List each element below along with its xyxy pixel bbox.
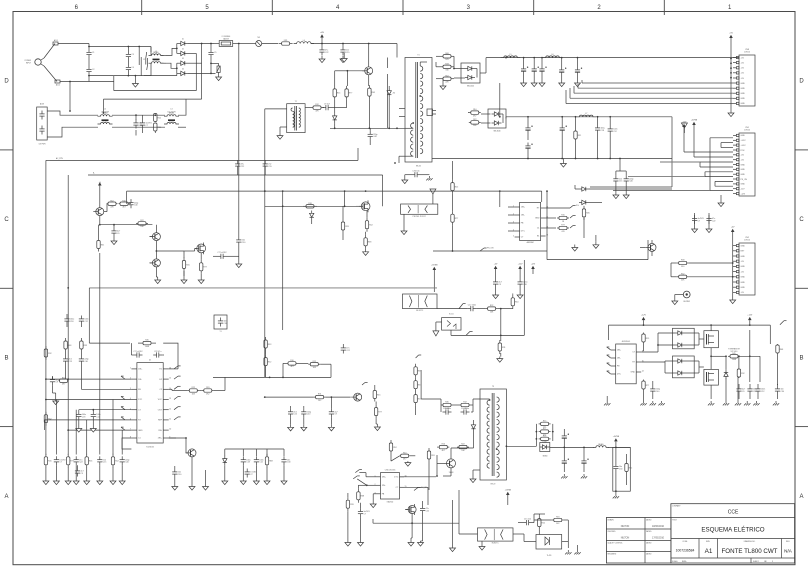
- svg-text:LF 23mH: LF 23mH: [101, 112, 109, 114]
- resistor R73: [390, 440, 392, 443]
- svg-text:GND: GND: [741, 103, 746, 105]
- wire rail x68: [67, 211, 69, 455]
- resistor R27: [200, 260, 202, 263]
- resistor R17: [583, 206, 585, 209]
- svg-text:ACL2: ACL2: [56, 84, 60, 87]
- connector CN2: [739, 243, 755, 295]
- svg-text:R22: R22: [158, 117, 161, 119]
- wire u8 bottom: [450, 330, 452, 335]
- terminal ACL2: [55, 80, 60, 83]
- svg-text:C18: C18: [82, 416, 85, 418]
- capacitor C25: [130, 199, 132, 202]
- power flag A1: [495, 269, 497, 274]
- diode D13: [223, 459, 227, 463]
- svg-text:PS_ON: PS_ON: [487, 248, 494, 250]
- ground G37: [404, 178, 406, 180]
- ground G17: [78, 426, 80, 429]
- capacitor C53: [652, 386, 654, 389]
- svg-text:GND: GND: [741, 83, 746, 85]
- svg-text:BEAD: BEAD: [598, 443, 604, 446]
- resistor R62: [677, 262, 679, 264]
- svg-text:R33: R33: [268, 344, 271, 346]
- resistor R6: [368, 85, 370, 88]
- resistor R16: [557, 227, 559, 229]
- svg-text:PS2561 PC817: PS2561 PC817: [413, 216, 426, 218]
- column tick marks: [141, 0, 143, 15]
- diode D14: [471, 425, 475, 429]
- ground hatch GH13: [652, 401, 654, 403]
- capacitor C15: [541, 66, 543, 69]
- svg-text:INPUT: INPUT: [26, 62, 31, 64]
- standby transformer T3: [480, 389, 506, 480]
- svg-text:C12 100n: C12 100n: [461, 408, 469, 410]
- flag F U3a: [570, 206, 573, 209]
- wire diode col: [575, 188, 579, 190]
- capacitor C38: [242, 456, 244, 459]
- ground G35: [615, 193, 617, 195]
- svg-text:R12: R12: [629, 467, 632, 469]
- svg-text:1007236584: 1007236584: [676, 549, 695, 553]
- svg-text:R77: R77: [646, 385, 649, 387]
- ground G26: [283, 478, 285, 481]
- ground G5: [442, 83, 444, 86]
- wire U1 bottom loop: [122, 438, 131, 449]
- line filter box LF1: [37, 107, 48, 140]
- snubber R10: [440, 66, 443, 68]
- svg-text:C22: C22: [712, 220, 715, 222]
- svg-text:R31: R31: [431, 455, 434, 457]
- power flag +5V CN8: [730, 38, 732, 44]
- ground hatch GH5: [577, 550, 579, 552]
- resistor R14: [575, 126, 577, 131]
- svg-text:+12V: +12V: [747, 315, 752, 317]
- svg-text:L4: L4: [303, 40, 305, 42]
- diode D3: [181, 61, 185, 65]
- svg-text:+12V: +12V: [741, 193, 746, 195]
- common mode choke L3: [164, 115, 179, 117]
- capacitor C27: [66, 316, 68, 319]
- optocoupler U4: [401, 204, 438, 214]
- svg-text:R33: R33: [681, 260, 684, 262]
- capacitor C59: [694, 215, 696, 218]
- ground hatch GH8: [737, 401, 739, 403]
- resistor R47: [415, 378, 417, 381]
- ground G43: [372, 501, 374, 504]
- wire fan out: [711, 355, 726, 357]
- resistor R29: [45, 346, 47, 349]
- resistor R5: [346, 86, 348, 89]
- svg-text:C12: C12: [259, 462, 262, 464]
- open arrow gnd2: [430, 189, 436, 194]
- svg-text:C3: C3: [131, 54, 133, 56]
- svg-text:C15: C15: [619, 181, 622, 183]
- capacitor C11: [369, 131, 371, 134]
- svg-text:C22: C22: [241, 166, 244, 168]
- wire q9 nets: [437, 462, 444, 464]
- svg-text:ACL1: ACL1: [54, 39, 58, 42]
- svg-text:R68: R68: [269, 461, 272, 463]
- svg-text:1IN-: 1IN-: [382, 485, 386, 487]
- flag 5VSB fb: [414, 488, 418, 491]
- svg-text:C40: C40: [134, 205, 137, 207]
- ground hatch GH1: [563, 474, 565, 476]
- svg-text:R52: R52: [445, 75, 448, 77]
- wire c24: [213, 255, 218, 257]
- svg-text:R31: R31: [101, 244, 104, 246]
- diode D4: [181, 71, 185, 75]
- resistor R64: [512, 295, 514, 298]
- svg-text:TITLE:: TITLE:: [672, 519, 678, 521]
- svg-text:GND: GND: [741, 256, 746, 258]
- thermistor R61: [728, 355, 730, 357]
- svg-text:C9 4u7: C9 4u7: [324, 103, 330, 105]
- ground G14: [183, 277, 185, 280]
- svg-text:5: 5: [513, 236, 514, 238]
- wire T3 left pins: [473, 398, 490, 400]
- TL431 U7: [536, 535, 562, 550]
- ground G25: [266, 478, 268, 481]
- svg-text:C7: C7: [146, 125, 148, 127]
- svg-text:GND: GND: [741, 88, 746, 90]
- resistor R75: [154, 122, 156, 125]
- resistor R43: [375, 405, 377, 408]
- svg-text:ESQUEMA ELÉTRICO: ESQUEMA ELÉTRICO: [701, 527, 764, 534]
- svg-text:R31: R31: [502, 347, 505, 349]
- capacitor C57: [757, 386, 759, 389]
- capacitor C67: [412, 174, 415, 176]
- capacitor C19: [527, 143, 529, 146]
- svg-text:A: A: [4, 494, 8, 500]
- svg-text:R22: R22: [313, 361, 316, 363]
- svg-text:A1: A1: [705, 548, 713, 555]
- transistor Q5: [152, 259, 160, 267]
- svg-text:SHEET:: SHEET:: [753, 561, 759, 563]
- dual diode D8: [461, 63, 480, 83]
- svg-text:C945 2SC945: C945 2SC945: [385, 469, 396, 471]
- ground hatch GH3: [615, 494, 617, 496]
- wire 5vsb rail: [550, 446, 594, 448]
- svg-text:R52: R52: [268, 361, 271, 363]
- wire EMI bot: [47, 127, 98, 137]
- capacitor C46: [443, 411, 446, 413]
- svg-text:DTC: DTC: [138, 399, 143, 401]
- resistor R22: [107, 203, 109, 205]
- wire HV rail: [311, 43, 397, 45]
- ground hatch GH10: [755, 401, 757, 403]
- svg-text:R31: R31: [578, 135, 581, 137]
- ground G19: [174, 484, 176, 487]
- svg-text:NILTON: NILTON: [621, 525, 630, 528]
- thermistor TH1: [256, 41, 262, 47]
- svg-text:R31: R31: [206, 387, 209, 389]
- svg-text:100K: 100K: [732, 359, 737, 361]
- svg-text:LF 23mH: LF 23mH: [168, 112, 176, 114]
- box U8: [442, 318, 461, 331]
- svg-text:R45: R45: [372, 92, 375, 94]
- power flag +12V CN1: [683, 127, 685, 133]
- svg-text:C9: C9: [56, 382, 58, 384]
- svg-text:1IN-: 1IN-: [617, 358, 621, 360]
- capacitor C54: [738, 368, 740, 369]
- ground G20: [191, 484, 193, 487]
- ground hatch GH14: [428, 176, 430, 178]
- svg-text:R22: R22: [542, 522, 545, 524]
- wire HV drop: [396, 44, 398, 58]
- svg-text:+HV: +HV: [320, 32, 325, 34]
- resistor R42: [374, 388, 376, 391]
- wire rail x452: [452, 161, 454, 180]
- svg-text:R10: R10: [403, 452, 406, 454]
- svg-text:TL494CN: TL494CN: [146, 447, 154, 449]
- svg-text:C15: C15: [268, 166, 271, 168]
- svg-text:4K7: 4K7: [473, 115, 476, 117]
- mosfet Q2: [361, 202, 370, 211]
- svg-text:+3.3V: +3.3V: [741, 140, 747, 142]
- ground G39: [499, 357, 501, 359]
- svg-text:R33: R33: [350, 504, 353, 506]
- svg-text:A: A: [799, 494, 803, 500]
- svg-text:C12: C12: [84, 321, 87, 323]
- svg-text:13: 13: [169, 398, 171, 400]
- svg-text:R45: R45: [586, 213, 589, 215]
- svg-text:2K2: 2K2: [206, 393, 209, 395]
- capacitor C43: [290, 408, 292, 411]
- op-amp U2: [616, 344, 637, 384]
- open arrow gnd: [681, 123, 687, 128]
- diode D1: [181, 41, 185, 45]
- svg-text:4K7: 4K7: [290, 366, 293, 368]
- svg-text:1: 1: [772, 561, 773, 563]
- resistor R44: [441, 404, 443, 406]
- resistor R48: [415, 392, 417, 395]
- mosfet Q13: [408, 506, 416, 514]
- capacitor C5: [210, 49, 212, 52]
- load box: [613, 447, 631, 491]
- svg-text:R15: R15: [646, 338, 649, 340]
- svg-text:R15: R15: [455, 186, 458, 188]
- svg-text:C40: C40: [656, 391, 659, 393]
- wire rail x547: [546, 191, 548, 251]
- fusible resistor R3: [279, 43, 282, 45]
- svg-text:C30: C30: [224, 323, 227, 325]
- svg-text:C15: C15: [103, 462, 106, 464]
- wire GND bus to CN8: [582, 82, 733, 84]
- svg-text:C30: C30: [242, 242, 245, 244]
- main transformer T1: [405, 58, 432, 163]
- resistor R66: [452, 180, 454, 183]
- svg-text:CON 10: CON 10: [744, 240, 750, 242]
- svg-text:R33: R33: [345, 226, 348, 228]
- svg-text:R15: R15: [337, 93, 340, 95]
- svg-text:SCALE:: SCALE:: [672, 560, 679, 563]
- svg-text:GND: GND: [741, 245, 746, 247]
- svg-text:R77: R77: [203, 267, 206, 269]
- ground G44: [420, 541, 422, 543]
- resistor R31: [80, 338, 82, 341]
- capacitor C56: [749, 386, 751, 389]
- svg-text:R10: R10: [122, 200, 125, 202]
- ground hatch GH4: [567, 550, 569, 552]
- resistor R53: [539, 431, 541, 433]
- svg-text:17/05/2010: 17/05/2010: [652, 536, 665, 539]
- wire AC lines: [89, 46, 151, 48]
- svg-text:R15: R15: [561, 215, 564, 217]
- capacitor C13: [523, 66, 525, 69]
- wire T2 left: [265, 108, 287, 110]
- svg-text:100K: 100K: [145, 346, 150, 348]
- svg-text:T2: T2: [295, 101, 297, 103]
- svg-text:R10: R10: [62, 377, 65, 379]
- wire fan top: [609, 324, 771, 326]
- wire tl431 nets: [533, 514, 535, 523]
- diode D6: [333, 116, 337, 120]
- svg-text:C40: C40: [307, 414, 310, 416]
- wire res ladder: [535, 424, 537, 446]
- svg-text:B: B: [799, 355, 803, 361]
- svg-text:R15: R15: [186, 264, 189, 266]
- svg-text:C7: C7: [364, 513, 366, 515]
- svg-text:EE-19: EE-19: [491, 484, 496, 486]
- capacitor C16: [561, 67, 563, 70]
- ground hatch GH12: [643, 401, 645, 403]
- svg-text:R68: R68: [445, 53, 448, 55]
- resistor R37: [265, 337, 267, 340]
- ground G9: [574, 245, 576, 248]
- svg-text:R22: R22: [461, 444, 464, 446]
- wire CN1 long feeds: [613, 190, 710, 192]
- capacitor C39: [255, 456, 257, 459]
- dual diode D17: [673, 356, 695, 378]
- svg-text:C22 47u: C22 47u: [154, 351, 161, 353]
- wire rail x238: [238, 44, 240, 237]
- svg-text:C: C: [4, 217, 9, 223]
- svg-text:CN PWR: CN PWR: [39, 144, 47, 146]
- wire +12 corner: [671, 117, 673, 187]
- svg-text:C18: C18: [70, 321, 73, 323]
- svg-text:R31: R31: [318, 394, 321, 396]
- wire CN8 feeder: [730, 44, 732, 110]
- svg-text:R77: R77: [70, 461, 73, 463]
- ground G45: [410, 541, 412, 543]
- resistor R56: [538, 516, 540, 519]
- wire U1 top loop: [89, 342, 130, 344]
- svg-text:C18 100u: C18 100u: [443, 408, 451, 410]
- resistor R23: [119, 203, 121, 205]
- svg-text:R15: R15: [543, 421, 546, 423]
- wire cap stack: [127, 47, 129, 52]
- wire EMI top: [47, 111, 98, 115]
- wire cn2 feeder: [732, 237, 734, 290]
- ground G11: [403, 228, 405, 231]
- resistor R15: [557, 217, 559, 219]
- svg-text:1K5: 1K5: [445, 59, 448, 61]
- svg-text:C9: C9: [742, 391, 744, 393]
- svg-text:15: 15: [169, 378, 171, 380]
- inductor L8: [593, 446, 609, 448]
- capacitor C52: [523, 522, 526, 524]
- resistor R50: [457, 446, 459, 448]
- svg-text:R12: R12: [315, 104, 318, 106]
- svg-text:C22: C22: [426, 510, 429, 512]
- ground hatch GH9: [746, 401, 748, 403]
- terminal ACL1: [53, 42, 58, 45]
- inductor L6: [543, 56, 563, 58]
- svg-text:R45: R45: [445, 402, 448, 404]
- wire stage2: [112, 114, 131, 116]
- svg-text:FR1: FR1: [284, 40, 288, 42]
- svg-text:330: 330: [681, 266, 684, 268]
- resistor R12: [469, 112, 471, 114]
- wire fb links: [283, 362, 286, 364]
- wire rail x99: [99, 253, 101, 379]
- svg-text:R52: R52: [418, 398, 421, 400]
- wire Q1: [368, 44, 370, 67]
- wire u2a net: [641, 351, 658, 353]
- resistor R58: [643, 333, 645, 335]
- svg-text:CON 10: CON 10: [744, 52, 750, 54]
- ground G13: [157, 277, 159, 280]
- svg-text:C7 1n/1KV: C7 1n/1KV: [133, 351, 143, 353]
- capacitor C35: [92, 411, 94, 414]
- resistor R4: [334, 86, 336, 89]
- svg-text:T1: T1: [417, 55, 419, 57]
- resistor R69: [643, 380, 645, 382]
- ground G1: [134, 81, 136, 84]
- svg-text:EL817C: EL817C: [492, 543, 499, 545]
- svg-text:L3: L3: [171, 109, 173, 111]
- svg-text:R52: R52: [393, 447, 396, 449]
- capacitor C7: [41, 126, 43, 129]
- resistor R28: [138, 342, 143, 344]
- resistor R36: [266, 454, 268, 457]
- capacitor C69: [360, 508, 362, 511]
- svg-text:KIA7042: KIA7042: [387, 501, 394, 504]
- svg-text:C40: C40: [125, 462, 128, 464]
- resistor R49: [437, 446, 439, 448]
- svg-text:C40: C40: [84, 361, 87, 363]
- svg-text:12: 12: [169, 408, 171, 410]
- wire U3 left: [508, 206, 515, 208]
- wire bottom row feeds: [55, 400, 57, 455]
- wire bridge anodes: [177, 43, 178, 45]
- svg-text:NTC 4D-9: NTC 4D-9: [731, 351, 738, 353]
- capacitor C61: [615, 175, 617, 178]
- resistor R19: [366, 218, 368, 221]
- svg-text:R52: R52: [681, 273, 684, 275]
- capacitor C48: [563, 433, 565, 436]
- resistor R26: [183, 258, 185, 261]
- flag F U3c: [570, 226, 573, 229]
- bottom filter row: [45, 454, 47, 457]
- wire bm bus: [225, 448, 284, 450]
- common mode choke L1: [149, 54, 164, 56]
- ground G41: [347, 541, 349, 543]
- transistor Q12: [648, 243, 656, 251]
- capacitor C4: [127, 64, 129, 67]
- transistor Q9: [447, 459, 456, 468]
- power flag A3: [532, 269, 534, 274]
- svg-text:D2: D2: [182, 48, 184, 50]
- wire U3 right nets: [546, 207, 570, 209]
- resistor R72: [347, 497, 349, 500]
- wire bridge cathodes: [188, 43, 214, 45]
- svg-text:C9: C9: [117, 233, 119, 235]
- svg-text:B: B: [4, 355, 8, 361]
- wire rail x282: [282, 206, 284, 330]
- resistor R74: [400, 455, 401, 457]
- svg-text:R68: R68: [780, 349, 783, 351]
- wire T3 area misc: [415, 406, 417, 415]
